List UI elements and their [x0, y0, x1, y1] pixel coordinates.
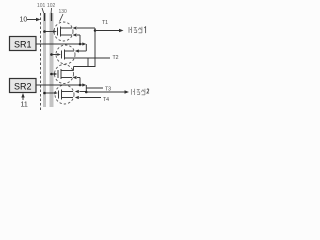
svg-text:11: 11 — [21, 102, 28, 109]
transistor T2 symbol — [62, 50, 75, 60]
transistor T4 symbol — [59, 90, 74, 100]
svg-text:T1: T1 — [102, 20, 108, 26]
output node vertical wire — [94, 28, 96, 67]
SR2 box — [10, 79, 37, 93]
wire input arrow 10 — [27, 18, 41, 21]
gate line 1 output arrow — [95, 29, 124, 32]
T3 source wire down to SR2 line — [73, 76, 81, 85]
transistor T4 ref label leader arrow — [75, 96, 101, 99]
transistor T2 dashed circle — [56, 45, 75, 64]
SR1 box — [10, 37, 37, 51]
T1 source wire down to SR1 line — [73, 33, 81, 44]
transistor T3 dashed circle — [55, 65, 74, 84]
T1 gate wire from bus 101 — [43, 30, 57, 33]
transistor T1 dashed circle — [54, 22, 73, 41]
panel edge dashed line — [40, 13, 42, 110]
svg-text:T3: T3 — [105, 87, 111, 93]
T2 gate wire from bus 102 — [50, 53, 61, 56]
transistor T3 symbol — [58, 69, 74, 79]
gate line 2 label (Korean glyph strokes) — [131, 89, 145, 95]
junction SR1/T1 — [79, 43, 82, 46]
leader 102 — [50, 8, 53, 14]
T4 gate wire from bus 101 — [43, 92, 58, 95]
transistor T4 dashed circle — [55, 85, 74, 104]
T1 drain wire to output node — [73, 26, 96, 29]
clock bus 101 — [43, 13, 46, 107]
SR1 output wire — [36, 42, 86, 45]
carry rail from T3 drain up to output node — [74, 67, 96, 71]
svg-text:101: 101 — [37, 3, 46, 9]
T3 gate wire from bus 102 — [50, 73, 57, 76]
svg-text:T4: T4 — [103, 97, 109, 103]
T2 drain wire with label leader — [74, 57, 110, 59]
junction output 2 — [85, 91, 88, 94]
svg-text:SR1: SR1 — [14, 40, 32, 50]
SR2 output wire — [36, 83, 86, 86]
gate line 1 label (Korean glyph strokes) — [129, 27, 142, 33]
T4 drain feed arrow — [75, 90, 87, 93]
wire SR2 down to T4 drain / output 2 — [85, 85, 87, 92]
svg-text:10: 10 — [20, 17, 28, 24]
svg-text:T2: T2 — [113, 55, 119, 61]
wire T2 drain down to carry rail — [87, 58, 89, 67]
leader 130 — [60, 14, 64, 22]
svg-text:SR2: SR2 — [14, 82, 32, 92]
clock bus 102 — [50, 13, 54, 107]
transistor T1 symbol — [58, 27, 73, 37]
input arrow 11 — [21, 93, 24, 100]
transistor T3 ref label leader — [86, 87, 103, 89]
junction SR2/T3 — [79, 84, 82, 87]
junction output 1 — [94, 29, 97, 32]
leader 101 — [42, 8, 44, 14]
wire SR1 to T2 source — [75, 44, 87, 53]
gate line 2 output arrow — [86, 90, 129, 93]
